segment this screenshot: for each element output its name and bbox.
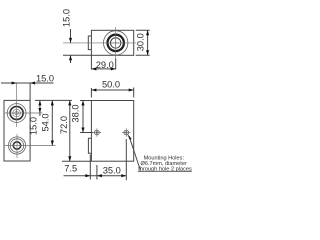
side view hole H2 middle circle <box>10 139 23 152</box>
arrow 29.0 right <box>111 67 116 70</box>
arrow 15.0 top view lower (points up) <box>69 55 72 60</box>
arrow 50.0 left <box>91 88 96 91</box>
dimension 15.0 horizontal (above side view) ext line right edge <box>29 83 31 100</box>
arrow 15.0 horiz left (tip at hole centerline, points right) <box>12 81 17 84</box>
dimension 38.0 line <box>82 101 84 133</box>
front view left tab <box>88 138 91 153</box>
top view left tab <box>88 36 91 50</box>
side view hole H1 counterbore ring <box>10 107 23 120</box>
dimension 7.5 line <box>64 175 97 177</box>
arrow 15.0 horiz right (tip at right edge ext, points left) <box>30 81 35 84</box>
dimension 15.0 (top view) line segments <box>70 29 72 63</box>
svg-text:50.0: 50.0 <box>102 80 120 90</box>
arrow 54.0 top (up) <box>51 100 54 105</box>
svg-text:72.0: 72.0 <box>59 116 69 134</box>
leader arrowhead <box>127 134 131 140</box>
side view hole H2 vertical centerline <box>16 134 18 158</box>
side view hole H1 inner circle <box>13 109 21 117</box>
extension line 38.0 bottom (hole centerline left) <box>80 132 93 134</box>
dimension 15.0 horizontal line <box>1 82 54 84</box>
leader underline <box>138 170 192 172</box>
side view hole H1 outer circle <box>7 104 26 123</box>
dimension 35.0 line <box>97 175 126 177</box>
svg-text:29.0: 29.0 <box>96 60 114 70</box>
svg-text:15.0: 15.0 <box>62 9 72 27</box>
top view port outer circle <box>104 31 128 55</box>
side view hole H1 vertical centerline <box>16 83 18 127</box>
leader line to note <box>129 136 141 171</box>
side view hole H1 horizontal centerline <box>5 112 43 114</box>
dimension 29.0 line <box>91 68 115 70</box>
arrow 30.0 bottom (down) <box>146 50 149 55</box>
top view body <box>91 30 133 55</box>
arrow 35.0 right (points right) <box>121 174 126 177</box>
dimension 54.0 line <box>51 100 53 145</box>
arrow 30.0 top (up) <box>146 30 149 35</box>
svg-text:54.0: 54.0 <box>40 113 50 131</box>
arrow 54.0 bottom (down) <box>51 141 54 146</box>
arrow 15.0 side bottom (down) <box>38 108 41 113</box>
side view body <box>4 100 30 161</box>
arrow 72.0 top (up) <box>68 100 71 105</box>
svg-text:38.0: 38.0 <box>71 104 81 122</box>
side view hole H2 inner ring <box>13 142 20 149</box>
top view port inner circle <box>111 38 121 48</box>
svg-text:7.5: 7.5 <box>64 163 77 173</box>
svg-text:35.0: 35.0 <box>103 165 121 175</box>
arrow 72.0 bottom (down) <box>68 156 71 161</box>
extension line 72.0 bottom <box>62 160 91 162</box>
arrow 50.0 right <box>129 88 134 91</box>
extension line top edge (side view) <box>35 99 72 101</box>
top view port ring <box>108 35 124 51</box>
arrow 29.0 left <box>91 67 96 70</box>
arrow 15.0 top view upper (points down) <box>69 38 72 43</box>
arrow 38.0 bottom (down) <box>81 128 84 133</box>
dimension 50.0 ext lines <box>91 88 133 98</box>
arrow 15.0 side top (up) <box>38 100 41 105</box>
side view hole H2 horizontal centerline <box>5 145 56 147</box>
dimension 15.0 line (side) <box>39 100 41 116</box>
side view hole H2 outer circle <box>8 137 25 154</box>
arrow 35.0 left (points left) <box>97 174 102 177</box>
arrow 7.5 left (points right, outside) <box>85 174 90 177</box>
side view hole H1 center mark <box>15 111 19 115</box>
dimension 50.0 line <box>91 89 133 91</box>
front view body <box>91 101 133 162</box>
dimension 72.0 line <box>69 100 71 161</box>
front view mounting hole right <box>124 130 129 135</box>
svg-text:15.0: 15.0 <box>29 117 39 135</box>
svg-text:30.0: 30.0 <box>135 33 145 51</box>
top view horizontal centerline <box>63 42 136 44</box>
front view top edge extension left (for 38.0) <box>80 100 91 102</box>
svg-text:through hole 2 places: through hole 2 places <box>138 166 192 172</box>
arrow 38.0 top (up) <box>81 101 84 106</box>
dimension 30.0 line <box>147 30 149 55</box>
front view mounting hole left <box>95 130 100 135</box>
top view bottom edge ext left <box>63 54 91 56</box>
dimension 7.5 / 35.0 ext lines <box>90 139 126 180</box>
svg-text:15.0: 15.0 <box>36 74 54 84</box>
top view port center mark <box>112 39 119 46</box>
dimension 29.0 ext lines <box>91 55 115 69</box>
top view vertical centerline <box>115 27 117 58</box>
dimension 30.0 ext lines <box>136 30 150 55</box>
